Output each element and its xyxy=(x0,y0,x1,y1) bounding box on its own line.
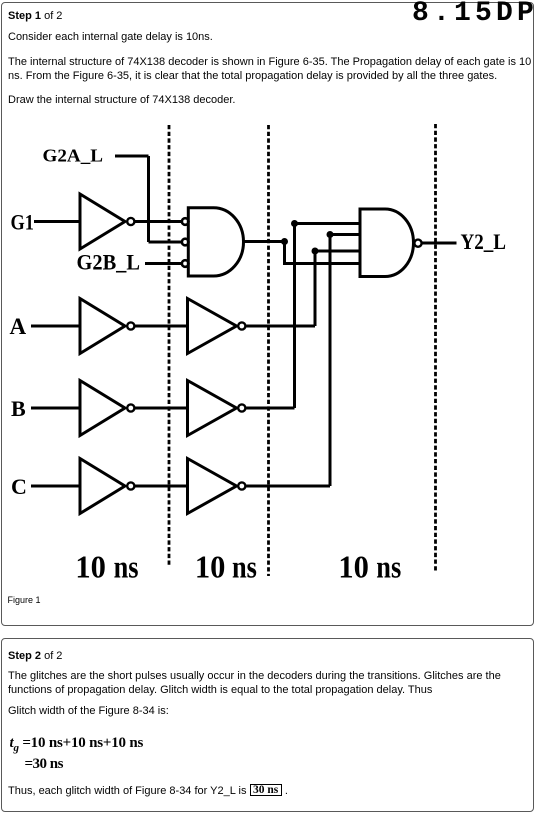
problem code 8.15DP xyxy=(412,0,536,29)
inverter U6 bubble xyxy=(238,404,245,411)
svg-text:G2A_L: G2A_L xyxy=(42,145,103,165)
svg-text:10: 10 xyxy=(338,549,369,585)
AND gate U2 body xyxy=(188,208,243,276)
svg-text:Y2_L: Y2_L xyxy=(460,229,506,254)
inverter U7 bubble xyxy=(127,482,134,489)
NAND gate U9 output bubble xyxy=(414,240,421,247)
step 2 card xyxy=(1,638,534,812)
wire AND output xyxy=(242,240,284,243)
delay boundary dashed line 3 xyxy=(434,124,437,571)
inverter U4 bubble xyxy=(238,322,245,329)
junction dot C corner xyxy=(326,231,333,238)
inverter U8 (C stage 2) xyxy=(187,459,236,514)
inverter U1 output bubble xyxy=(127,218,134,225)
circuit diagram xyxy=(1,121,536,591)
AND gate U2 input bubble 2 xyxy=(181,239,188,246)
inverter U3 bubble xyxy=(127,322,134,329)
junction dot AND output corner xyxy=(281,238,288,245)
inverter U1 (G1) triangle xyxy=(80,194,125,249)
wire Y2_L output xyxy=(422,242,456,245)
wire G1 input xyxy=(34,220,80,223)
AND gate U2 input bubble 1 xyxy=(181,218,188,225)
inverter U6 (B stage 2) xyxy=(187,381,236,436)
inverter U4 (A stage 2) xyxy=(187,299,236,354)
svg-text:ns: ns xyxy=(376,549,401,585)
svg-text:ns: ns xyxy=(113,549,138,585)
wire G2B_L to AND input 3 xyxy=(145,262,181,265)
wire AND output down xyxy=(284,242,360,264)
svg-text:ns: ns xyxy=(232,549,257,585)
wire G2A_L to AND input 2 xyxy=(148,241,181,244)
wire B stage1 to stage2 xyxy=(135,407,188,410)
wire C to vertical xyxy=(246,485,330,488)
wire A input xyxy=(31,325,80,328)
svg-text:C: C xyxy=(11,474,27,499)
svg-text:G2B_L: G2B_L xyxy=(76,250,140,275)
inverter U5 (B stage 1) xyxy=(80,381,125,436)
NAND gate U9 body xyxy=(360,209,413,277)
svg-text:A: A xyxy=(9,314,26,339)
wire G2A_L horizontal xyxy=(115,155,149,158)
wire A to vertical xyxy=(246,325,315,328)
AND gate U2 input bubble 3 xyxy=(181,260,188,267)
inverter U7 (C stage 1) xyxy=(80,459,125,514)
wire B input xyxy=(31,407,80,410)
delay boundary dashed line 1 xyxy=(167,125,170,566)
svg-text:G1: G1 xyxy=(10,210,34,235)
svg-text:B: B xyxy=(11,396,26,421)
step 1 card xyxy=(1,2,534,626)
wire C input xyxy=(31,485,80,488)
inverter U8 bubble xyxy=(238,482,245,489)
svg-text:10: 10 xyxy=(75,549,106,585)
formula tg = 10ns+10ns+10ns xyxy=(10,735,144,754)
junction dot A corner xyxy=(311,248,318,255)
svg-text:10: 10 xyxy=(194,549,225,585)
inverter U3 (A stage 1) xyxy=(80,299,125,354)
junction dot B corner xyxy=(291,220,298,227)
wire U1 output to AND input 1 xyxy=(135,220,181,223)
wire B vertical up xyxy=(294,224,360,409)
inverter U5 bubble xyxy=(127,404,134,411)
wire A vertical up xyxy=(315,251,361,326)
wire B to vertical xyxy=(246,407,294,410)
wire C vertical up xyxy=(330,235,361,487)
wire A stage1 to stage2 xyxy=(135,325,188,328)
wire C stage1 to stage2 xyxy=(135,485,188,488)
wire G2A_L vertical down xyxy=(147,156,150,242)
delay boundary dashed line 2 xyxy=(267,125,270,576)
